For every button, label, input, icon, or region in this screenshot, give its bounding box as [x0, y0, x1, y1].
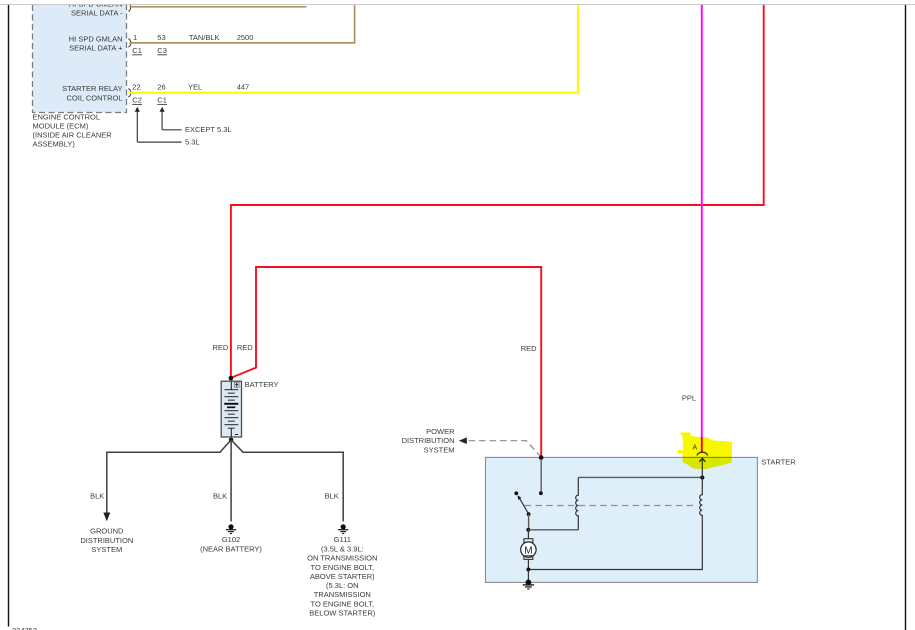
svg-text:BLK: BLK	[325, 491, 339, 500]
top crop cover strip (decorative)	[0, 0, 915, 4]
EXCEPT 5.3L pointer arrow to C1	[160, 107, 232, 134]
svg-text:DISTRIBUTION: DISTRIBUTION	[402, 436, 455, 445]
ECM caption	[33, 112, 113, 148]
motor M	[521, 530, 536, 570]
svg-text:ENGINE CONTROL: ENGINE CONTROL	[33, 112, 101, 121]
A terminal arrow into starter	[699, 458, 705, 477]
switch blade with arrow tip	[518, 495, 529, 514]
svg-text:BLK: BLK	[213, 491, 227, 500]
svg-text:RED: RED	[212, 343, 228, 352]
wire black to G102	[230, 440, 232, 522]
ground symbol G111	[338, 524, 348, 533]
pin labels 1 53 TAN/BLK 2500	[133, 33, 253, 42]
svg-text:53: 53	[157, 33, 165, 42]
A terminal connector arc	[697, 452, 708, 455]
solenoid pull-in coil L2	[528, 478, 702, 570]
wire magenta PPL to starter A terminal	[701, 5, 703, 453]
svg-text:SERIAL DATA +: SERIAL DATA +	[69, 44, 123, 53]
svg-text:22: 22	[132, 83, 140, 92]
svg-text:(5.3L: ON: (5.3L: ON	[326, 581, 359, 590]
svg-text:DISTRIBUTION: DISTRIBUTION	[80, 536, 133, 545]
junction dot switch/coil/motor	[526, 528, 530, 532]
svg-text:ON TRANSMISSION: ON TRANSMISSION	[307, 554, 377, 563]
pin labels 22 26 YEL 447	[132, 83, 249, 92]
wire tan/blk 2500	[130, 5, 355, 43]
label POWER DISTRIBUTION SYSTEM	[402, 427, 455, 455]
svg-text:STARTER RELAY: STARTER RELAY	[62, 84, 122, 93]
svg-text:224753: 224753	[12, 626, 37, 630]
svg-text:TAN/BLK: TAN/BLK	[189, 33, 220, 42]
svg-text:MODULE (ECM): MODULE (ECM)	[33, 121, 89, 130]
wire red battery to starter B terminal	[231, 267, 541, 456]
wire motor to case ground	[527, 570, 529, 581]
connector labels C2 C1	[132, 96, 167, 105]
svg-text:1: 1	[133, 33, 137, 42]
switch fixed contact dot (B side)	[539, 491, 543, 495]
svg-text:G111: G111	[334, 535, 351, 544]
wire black to G111	[231, 440, 343, 522]
A terminal junction dot	[700, 475, 704, 479]
wire black to ground distribution	[107, 440, 231, 513]
ECM pin name: HI SPD GMLAN SERIAL DATA +	[69, 34, 123, 52]
wire pivot down to junction	[528, 514, 530, 530]
svg-text:HI SPD GMLAN: HI SPD GMLAN	[69, 34, 123, 43]
ECM pin name: STARTER RELAY COIL CONTROL	[62, 84, 122, 102]
wire tan serial data -	[130, 6, 307, 8]
label G111 caption	[307, 535, 377, 617]
svg-text:26: 26	[157, 83, 165, 92]
wire yellow 447	[130, 5, 579, 93]
wire red battery positive feed (top)	[231, 5, 764, 377]
starter case ground symbol	[523, 580, 534, 589]
svg-text:RED: RED	[521, 344, 537, 353]
svg-text:TRANSMISSION: TRANSMISSION	[314, 590, 371, 599]
svg-text:GROUND: GROUND	[90, 527, 124, 536]
svg-text:YEL: YEL	[188, 83, 202, 92]
connector bracket pin starter relay	[128, 89, 131, 97]
svg-text:(3.5L & 3.9L:: (3.5L & 3.9L:	[321, 545, 364, 554]
ground symbol G102	[226, 524, 236, 533]
yellow highlighter mark on A terminal	[678, 432, 733, 469]
svg-text:C3: C3	[157, 46, 167, 55]
svg-text:ABOVE STARTER): ABOVE STARTER)	[310, 572, 375, 581]
svg-text:2500: 2500	[237, 33, 254, 42]
connector bracket pin serial data +	[128, 39, 131, 47]
svg-text:C1: C1	[132, 46, 142, 55]
svg-text:TO ENGINE BOLT,: TO ENGINE BOLT,	[311, 599, 375, 608]
svg-text:STARTER: STARTER	[761, 457, 796, 466]
svg-text:ASSEMBLY): ASSEMBLY)	[33, 140, 76, 149]
svg-text:M: M	[524, 545, 532, 556]
5.3L pointer arrow to C2	[135, 107, 200, 146]
svg-text:C2: C2	[132, 96, 142, 105]
svg-text:5.3L: 5.3L	[185, 137, 200, 146]
wire junction to hold-in coil bottom	[528, 529, 578, 531]
svg-text:RED: RED	[237, 343, 253, 352]
svg-text:BELOW STARTER): BELOW STARTER)	[309, 608, 375, 617]
svg-text:C1: C1	[157, 96, 167, 105]
svg-text:TO ENGINE BOLT,: TO ENGINE BOLT,	[311, 563, 375, 572]
svg-text:447: 447	[237, 83, 250, 92]
connector labels C1 C3	[132, 46, 167, 55]
motor bottom junction dot	[526, 568, 530, 572]
label GROUND DISTRIBUTION SYSTEM	[80, 527, 133, 554]
svg-text:SYSTEM: SYSTEM	[91, 545, 122, 554]
label G102 (NEAR BATTERY)	[200, 535, 262, 553]
svg-text:SERIAL DATA -: SERIAL DATA -	[71, 9, 123, 18]
connector bracket pin serial data -	[128, 3, 131, 11]
svg-text:(INSIDE AIR CLEANER: (INSIDE AIR CLEANER	[33, 131, 113, 140]
arrow power distribution	[459, 437, 467, 444]
svg-text:(NEAR BATTERY): (NEAR BATTERY)	[200, 544, 262, 553]
svg-text:PPL: PPL	[682, 393, 696, 402]
wire B terminal to switch contact	[540, 459, 542, 493]
switch pivot dot	[527, 512, 531, 516]
battery	[221, 381, 241, 437]
switch contact dot	[514, 491, 518, 495]
svg-text:BATTERY: BATTERY	[245, 380, 279, 389]
battery positive junction dot	[229, 376, 234, 381]
solenoid hold-in coil L1	[576, 477, 579, 529]
starter box	[486, 457, 758, 582]
page frame (decorative)	[0, 4, 915, 6]
plunger linkage dashed line	[525, 505, 695, 507]
svg-text:BLK: BLK	[90, 491, 104, 500]
dashed leader to starter B node	[469, 441, 541, 457]
wire coil top bus	[578, 476, 702, 478]
svg-text:EXCEPT 5.3L: EXCEPT 5.3L	[185, 125, 232, 134]
ECM module block	[33, 5, 127, 113]
svg-text:COIL CONTROL: COIL CONTROL	[67, 93, 123, 102]
arrow to ground distribution system	[103, 513, 110, 522]
ECM pin name: HI SPD GMLAN SERIAL DATA - (cut at top)	[69, 0, 123, 18]
battery negative junction dot	[229, 438, 234, 443]
starter B terminal junction dot	[539, 455, 544, 460]
svg-text:SYSTEM: SYSTEM	[424, 446, 455, 455]
svg-text:G102: G102	[222, 535, 240, 544]
svg-text:POWER: POWER	[426, 427, 455, 436]
